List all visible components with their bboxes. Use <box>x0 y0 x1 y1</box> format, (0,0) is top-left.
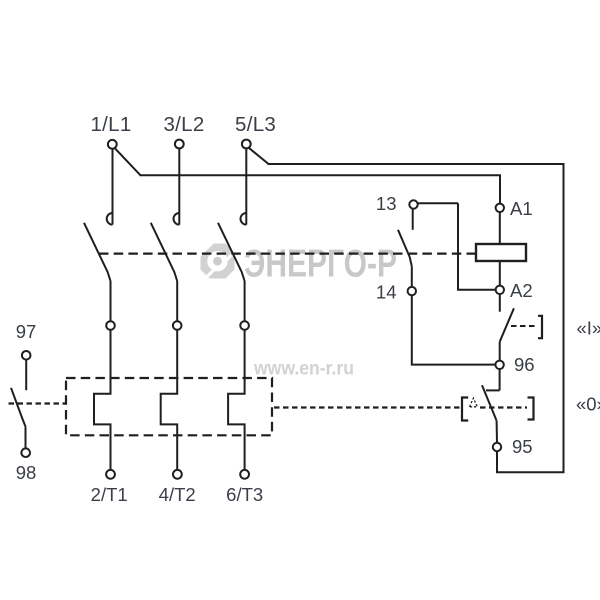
heater element pole 1 <box>94 330 111 470</box>
contact 95-96 (trip contact «0») <box>482 369 500 443</box>
svg-text:A2: A2 <box>510 280 533 301</box>
terminal 95 <box>493 443 501 451</box>
dashed triangle latch symbol <box>470 398 478 407</box>
svg-text:98: 98 <box>16 462 37 483</box>
contact 13-14 <box>398 203 496 364</box>
svg-text:96: 96 <box>514 354 535 375</box>
terminal 3/L2 <box>175 140 184 149</box>
pole 3 contact <box>218 149 246 322</box>
terminal A1 <box>496 204 504 212</box>
wire L1 diagonal to control bus <box>115 148 141 175</box>
pole mid terminal 2 <box>173 321 182 330</box>
pole 2 contact <box>151 149 180 322</box>
svg-text:«I»: «I» <box>577 318 600 339</box>
contact I> (between A2 and 96) <box>500 294 514 361</box>
terminal 2/T1 <box>106 470 115 479</box>
svg-text:95: 95 <box>512 436 533 457</box>
svg-text:2/T1: 2/T1 <box>91 484 128 505</box>
coil A1-A2 <box>476 244 526 261</box>
pole mid terminal 1 <box>106 321 115 330</box>
terminal 6/T3 <box>240 470 249 479</box>
thermal relay dashed box <box>66 378 272 435</box>
mechanical linkage dashed line (main) <box>99 253 476 255</box>
right bracket of 0 actuator <box>528 398 534 420</box>
terminal 5/L3 <box>242 140 251 149</box>
svg-text:www.en-r.ru: www.en-r.ru <box>253 359 354 380</box>
contact 97-98 <box>11 360 26 449</box>
heater element pole 3 <box>228 330 245 470</box>
heater element pole 2 <box>161 330 178 470</box>
left bracket of 0 actuator <box>462 398 468 421</box>
wire right side rail <box>268 164 564 472</box>
svg-text:4/T2: 4/T2 <box>159 484 196 505</box>
terminal 96 <box>495 361 503 369</box>
terminal A2 <box>496 286 504 294</box>
svg-text:A1: A1 <box>510 198 533 219</box>
terminal 14 <box>408 287 416 295</box>
wire control bus to A1 <box>140 175 501 203</box>
terminal 97 <box>22 351 31 360</box>
terminal circles <box>21 140 504 479</box>
terminal 1/L1 <box>108 140 117 149</box>
actuator dashes through 95-96 contact <box>480 406 527 408</box>
terminal 4/T2 <box>173 470 182 479</box>
trip linkage dashed line right <box>274 406 460 408</box>
pole 1 contact <box>84 149 113 321</box>
svg-text:«0»: «0» <box>576 394 600 415</box>
watermark logo <box>198 243 241 281</box>
terminal 13 <box>409 200 417 208</box>
coil leads A1-A2 <box>499 212 501 244</box>
wire L3 diagonal <box>249 148 269 164</box>
svg-text:97: 97 <box>16 321 37 342</box>
svg-text:13: 13 <box>376 193 397 214</box>
svg-text:ЭНЕРГО-Р: ЭНЕРГО-Р <box>244 243 397 286</box>
actuator bar for I> <box>511 316 542 338</box>
svg-text:3/L2: 3/L2 <box>163 113 204 136</box>
svg-text:14: 14 <box>376 282 397 303</box>
svg-text:6/T3: 6/T3 <box>226 484 263 505</box>
svg-text:5/L3: 5/L3 <box>235 113 276 136</box>
pole mid terminal 3 <box>240 321 249 330</box>
terminal 98 <box>21 448 30 457</box>
svg-text:1/L1: 1/L1 <box>90 113 131 136</box>
trip linkage dashed line left <box>9 402 67 404</box>
